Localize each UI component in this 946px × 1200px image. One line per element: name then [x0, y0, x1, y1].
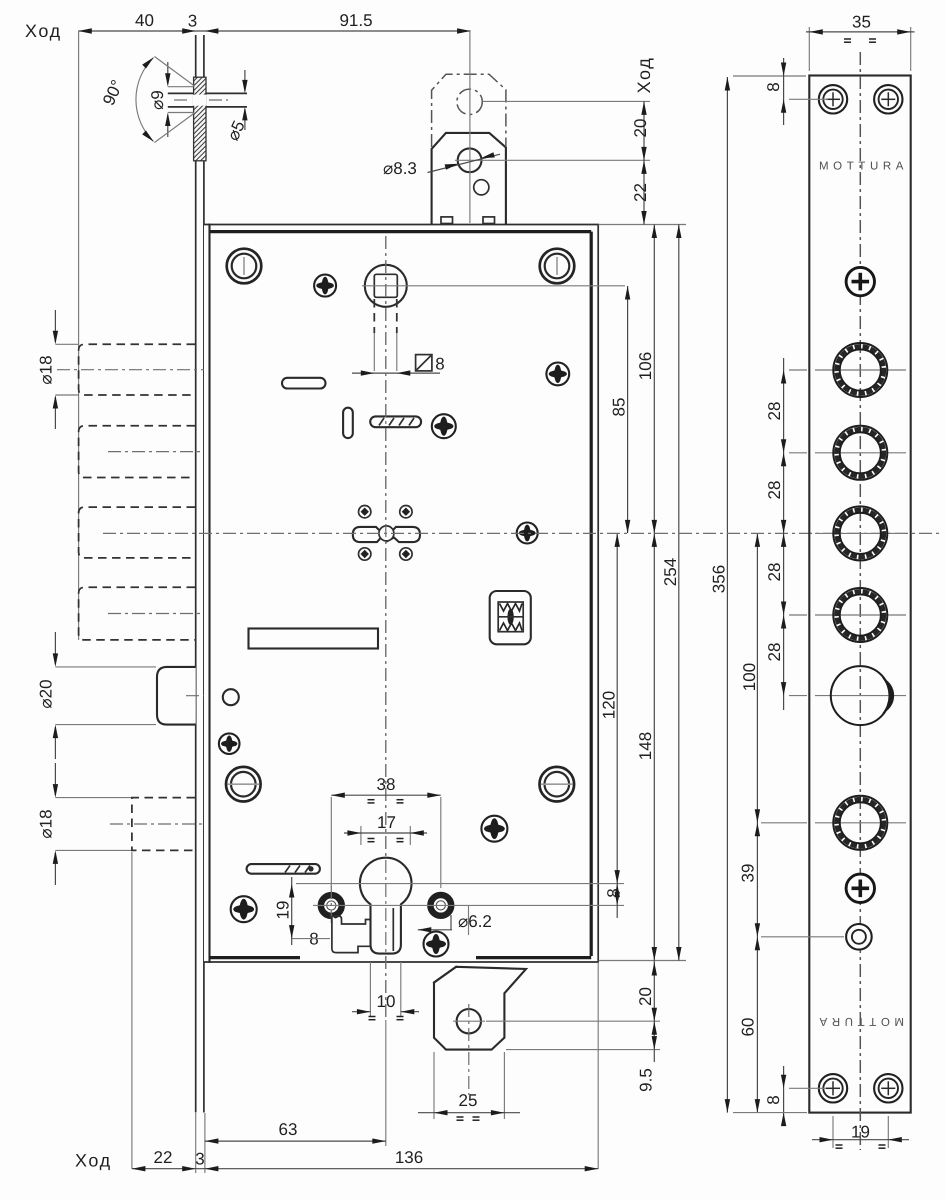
- dimension 20 and 22 bracket stroke: [643, 101, 645, 224]
- svg-text:8: 8: [764, 1095, 783, 1104]
- square hole projection lines for dim 8: [373, 299, 375, 333]
- euro profile cylinder: [360, 858, 412, 954]
- svg-text:35: 35: [852, 12, 871, 31]
- faceplate outline: [809, 76, 910, 1113]
- extension hole6 to 100/39 dims: [761, 822, 807, 824]
- faceplate hole 1: [815, 369, 906, 371]
- svg-text:8: 8: [764, 82, 783, 91]
- faceplate side view front edge line: [195, 35, 197, 77]
- svg-text:39: 39: [739, 864, 758, 883]
- extension faceplate lines down: [195, 1113, 197, 1173]
- phillips screw A: [314, 275, 336, 297]
- extension line left for stroke 40: [78, 31, 80, 640]
- main vertical centerline through follower and cylinder: [385, 236, 387, 1020]
- faceplate hole 4: [815, 614, 906, 616]
- extension bottom screws to dim 8: [789, 1087, 826, 1089]
- extension plate bottom left: [733, 1112, 807, 1114]
- long rectangular slot: [249, 629, 379, 649]
- auxiliary deadbolt B5 centerline: [110, 823, 236, 825]
- latch pin crossing hatch (white): [193, 95, 207, 106]
- svg-text:28: 28: [765, 563, 784, 582]
- case screw bottom-left: [226, 767, 261, 802]
- svg-text:85: 85: [610, 398, 629, 417]
- extension ring to 39/60 dims: [761, 936, 844, 938]
- svg-text:19: 19: [851, 1123, 870, 1142]
- dia 8.3 dimension diagonal: [428, 154, 501, 172]
- switch block: [490, 591, 531, 644]
- dimension 38 cylinder screws: [331, 794, 441, 796]
- latch pin centerline: [174, 99, 190, 101]
- dimension 106 / 148 / 20 / 9.5 column: [653, 225, 655, 1063]
- bracket hole: [457, 1009, 481, 1033]
- extension phantom hole to dim: [483, 100, 651, 102]
- deadbolt B4 centerline: [108, 613, 232, 615]
- dimension dia 5: [244, 70, 246, 91]
- dimension 8 top screws: [733, 75, 806, 77]
- main horizontal axis centerline: [103, 532, 941, 534]
- dimension 356: [726, 77, 728, 1113]
- dimension 25 bracket: [433, 1052, 435, 1119]
- spindle follower hub: [365, 265, 407, 307]
- lock case left edge: [208, 225, 210, 963]
- small circle hole: [223, 689, 239, 705]
- latch pin dia 5 lines: [168, 92, 194, 94]
- phillips screw G: [481, 816, 507, 842]
- central lever link (butterfly): [353, 527, 420, 542]
- svg-text:148: 148: [636, 732, 655, 760]
- deadbolt B1 thrown outline (dashed): [79, 344, 195, 395]
- phillips screw E: [219, 733, 240, 754]
- faceplate hole 2: [815, 452, 906, 454]
- svg-text:⌀18: ⌀18: [37, 809, 56, 838]
- dimension dia 18 lower bolt: [54, 763, 56, 795]
- square symbol with slash: [416, 355, 432, 371]
- countersunk screw upper: [846, 267, 874, 295]
- deadbolt B4 thrown outline (dashed): [79, 587, 195, 640]
- svg-text:3: 3: [195, 1150, 204, 1169]
- bracket hole extension right for dim 20/9.5: [486, 1020, 660, 1022]
- svg-text:10: 10: [377, 992, 396, 1011]
- dimension dia 20 latch: [54, 632, 56, 664]
- extension lines tangent cylinder for dim 17: [360, 826, 362, 845]
- 90 degree swing arc of latch: [155, 57, 195, 87]
- satellite screw 1: [359, 506, 371, 518]
- top bracket solid outline: [432, 133, 506, 224]
- extension case bottom to right dims: [599, 960, 687, 962]
- fixing hole centerline upper stub: [468, 905, 470, 935]
- svg-text:25: 25: [459, 1091, 478, 1110]
- faceplate bottom screw left: [819, 1074, 847, 1102]
- lower slot with teeth: [247, 864, 320, 874]
- dimension 100 / 39 / 60 column: [756, 533, 758, 1112]
- faceplate bottom screw right: [874, 1074, 902, 1102]
- dimension 8 square spindle: [352, 372, 440, 374]
- satellite screw 4: [400, 548, 412, 560]
- bottom dimension line 22 / 3 / 136: [132, 1168, 598, 1170]
- svg-text:Ход: Ход: [634, 57, 654, 94]
- svg-text:22: 22: [154, 1148, 173, 1167]
- case screw top-left: [227, 249, 262, 284]
- follower horizontal extension to dim 85: [362, 285, 625, 287]
- svg-text:38: 38: [377, 775, 396, 794]
- faceplate vertical centerline: [859, 52, 861, 1150]
- svg-text:3: 3: [188, 12, 197, 31]
- dimension 17 cylinder diameter: [344, 832, 427, 834]
- countersunk screw lower: [846, 874, 874, 902]
- deadbolt B3 thrown outline (dashed): [79, 507, 195, 558]
- svg-text:19: 19: [274, 901, 293, 920]
- cylinder keyway line: [392, 908, 394, 951]
- case screw bottom-right: [540, 767, 575, 802]
- svg-text:⌀20: ⌀20: [37, 679, 56, 708]
- svg-text:120: 120: [600, 691, 619, 719]
- screw axis horizontal line: [313, 904, 624, 906]
- dimension 10 cylinder stem: [369, 962, 371, 1016]
- svg-text:Ход: Ход: [75, 1151, 112, 1171]
- svg-text:⌀8.3: ⌀8.3: [383, 159, 417, 178]
- svg-text:9.5: 9.5: [637, 1068, 656, 1092]
- kidney slot upper: [282, 378, 326, 389]
- svg-text:MOTTURA: MOTTURA: [815, 1015, 904, 1027]
- svg-text:254: 254: [661, 558, 680, 586]
- svg-text:91.5: 91.5: [339, 11, 372, 30]
- extension from clip bottom for dim 19: [292, 938, 330, 940]
- svg-text:63: 63: [279, 1120, 298, 1139]
- faceplate hole 3: [815, 532, 906, 534]
- dimension dia 9: [167, 62, 169, 84]
- svg-text:⌀6.2: ⌀6.2: [458, 912, 492, 931]
- dimension 63: [205, 1140, 386, 1142]
- svg-text:MOTTURA: MOTTURA: [819, 161, 908, 173]
- deadbolt B2 centerline: [108, 451, 232, 453]
- main centerline overlay through cylinder: [385, 236, 387, 1020]
- top bracket phantom outline (raised position): [432, 74, 506, 147]
- svg-text:136: 136: [395, 1148, 423, 1167]
- auxiliary deadbolt B5 outline (dashed): [132, 798, 195, 851]
- phillips screw C: [432, 414, 456, 438]
- top bracket feet: [441, 217, 453, 224]
- satellite screw 3: [359, 548, 371, 560]
- lock case inner lid edge: [210, 230, 592, 233]
- left screw vertical centerline: [330, 886, 332, 925]
- phillips screw F: [231, 896, 257, 922]
- extension case top to right dims: [599, 224, 687, 226]
- leader dia 6.2: [418, 929, 452, 931]
- phillips screw H: [424, 932, 449, 957]
- cylinder fixing screw right: [430, 895, 451, 916]
- svg-text:106: 106: [636, 352, 655, 380]
- svg-text:8: 8: [604, 888, 623, 897]
- svg-text:⌀18: ⌀18: [37, 355, 56, 384]
- bracket hole solid dia 8.3: [458, 148, 482, 172]
- extension lines for dim 28 chain: [789, 369, 807, 371]
- dimension 35 faceplate width: [808, 27, 810, 71]
- faceplate top screw right: [874, 85, 902, 113]
- svg-text:60: 60: [739, 1018, 758, 1037]
- extension line bracket axis for 91.5: [469, 31, 471, 56]
- svg-text:22: 22: [631, 183, 650, 202]
- toothed rack bar: [370, 416, 421, 427]
- lever hub circle: [379, 526, 394, 541]
- lock case bottom lid edge segments: [210, 956, 301, 959]
- dimension 28 chain: [783, 358, 785, 710]
- dimension 19 bottom screws: [832, 1116, 834, 1148]
- extension solid hole to dim: [484, 159, 650, 161]
- satellite screw 2: [400, 506, 412, 518]
- dimension 8 bottom screws: [783, 1066, 785, 1125]
- deadbolt B2 thrown outline (dashed): [79, 426, 195, 478]
- extension case right edge down: [597, 962, 599, 1169]
- bracket bottom extension right: [506, 1049, 660, 1051]
- svg-text:28: 28: [765, 402, 784, 421]
- svg-text:20: 20: [636, 987, 655, 1006]
- small hole in bracket: [474, 180, 489, 195]
- small vertical slot: [343, 408, 353, 438]
- svg-text:356: 356: [710, 565, 729, 593]
- phillips screw D: [517, 523, 538, 544]
- cylinder fixing screw left: [321, 895, 342, 916]
- bottom fixing bracket octagon: [434, 967, 526, 1050]
- faceplate hole 6: [815, 822, 906, 824]
- svg-text:8: 8: [435, 355, 444, 374]
- svg-text:100: 100: [740, 663, 759, 691]
- lock case outer edge: [204, 225, 598, 963]
- phillips screw B: [546, 363, 569, 386]
- dimension 85: [627, 286, 629, 533]
- top dimension line 40 / 3 / 91.5: [78, 30, 470, 32]
- latch bolt centerline: [186, 695, 236, 697]
- faceplate cylinder hole: [815, 695, 906, 697]
- latch pin hole lines dia 9: [168, 86, 194, 88]
- bracket vertical centerline: [469, 56, 471, 223]
- deadbolt B1 centerline: [57, 369, 232, 371]
- svg-text:28: 28: [765, 481, 784, 500]
- svg-text:20: 20: [631, 119, 650, 138]
- case screw top-right: [540, 249, 575, 284]
- svg-text:28: 28: [765, 643, 784, 662]
- latch bolt solid outline: [157, 667, 196, 725]
- cylinder clip bracket: [332, 916, 370, 953]
- faceplate side view back edge line: [203, 35, 205, 77]
- extension lines from cylinder screws up to dim 38: [330, 797, 332, 888]
- faceplate top screw left: [819, 85, 847, 113]
- dimension 19 cylinder vertical: [291, 877, 293, 945]
- cylinder horizontal centerline: [296, 883, 624, 885]
- small ring hole: [846, 924, 872, 950]
- svg-text:⌀9: ⌀9: [148, 90, 167, 110]
- svg-text:40: 40: [135, 11, 154, 30]
- dimension 254: [678, 225, 680, 961]
- extension line from B5 tip for stroke 22: [131, 852, 133, 1169]
- bracket hole phantom (dashed circle): [457, 89, 482, 114]
- svg-text:17: 17: [377, 813, 396, 832]
- svg-text:Ход: Ход: [25, 21, 62, 41]
- dimension dia 18 top bolts: [54, 310, 56, 342]
- bracket hole centerlines: [453, 1020, 485, 1022]
- spindle square hole 8mm: [374, 274, 397, 297]
- dimension 120 and 8: [616, 533, 618, 918]
